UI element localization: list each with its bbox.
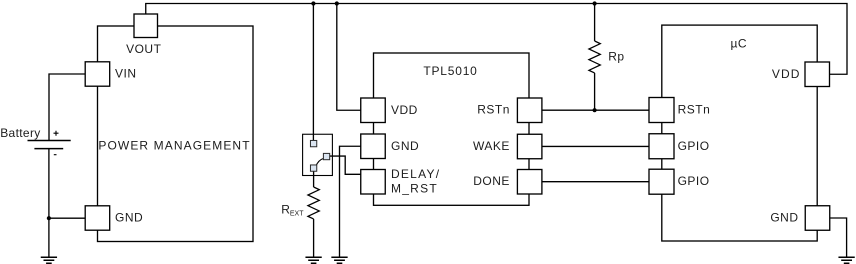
ground (TPL5010 GND) (331, 257, 347, 263)
wire TPL5010 DONE to uC GPIO (542, 181, 649, 183)
wire uC GND to ground (830, 218, 847, 257)
svg-text:POWER MANAGEMENT: POWER MANAGEMENT (98, 138, 250, 152)
battery plus mark (54, 131, 59, 136)
pin VOUT box (134, 14, 158, 38)
switch S1 body (303, 134, 333, 175)
resistor REXT (308, 187, 319, 219)
pin VDD box (uC) (805, 62, 830, 87)
wire REXT to ground (313, 219, 315, 257)
pin RSTn box (uC) (649, 98, 674, 123)
svg-text:VDD: VDD (772, 67, 801, 81)
wire TPL5010 WAKE to uC GPIO (542, 145, 649, 147)
wire rail to TPL5010 VDD (337, 4, 361, 111)
junction node rail-VDD (335, 1, 339, 5)
svg-text:GPIO: GPIO (678, 139, 710, 153)
switch terminal bottom-left (310, 165, 316, 171)
block uC (662, 25, 817, 241)
wire switch wiper to DELAY/M_RST (330, 156, 361, 174)
wire junction to ground (48, 218, 50, 257)
switch S1 wiper (316, 158, 324, 167)
pin GND box (TPL5010) (361, 134, 386, 159)
pin VIN box (85, 62, 110, 86)
svg-text:µC: µC (731, 37, 748, 51)
pin GPIO box 1 (uC) (649, 134, 674, 159)
junction node battery-GND (47, 216, 51, 220)
ground (uC GND) (838, 257, 854, 263)
ground (REXT) (305, 257, 321, 263)
pin DELAY/M_RST box (TPL5010) (361, 170, 386, 195)
svg-text:GND: GND (115, 211, 143, 225)
wire switch to REXT (313, 171, 315, 187)
pin GND box (PM) (85, 206, 110, 230)
battery minus mark (54, 154, 57, 156)
battery B1 (28, 141, 71, 149)
resistor Rp (589, 41, 600, 73)
wire TPL5010 GND to ground (340, 146, 361, 257)
wire Rp to RSTn net (594, 73, 596, 110)
ground (battery) (41, 257, 57, 263)
svg-text:M_RST: M_RST (391, 182, 438, 196)
wire VIN to battery (49, 74, 85, 140)
block POWER MANAGEMENT (98, 26, 254, 242)
svg-text:DELAY/: DELAY/ (391, 167, 440, 181)
pin WAKE box (TPL5010) (517, 134, 542, 159)
wire rail to switch top terminal (312, 4, 314, 141)
block TPL5010 (374, 53, 530, 205)
svg-text:TPL5010: TPL5010 (423, 64, 477, 78)
junction node rail-Rp (593, 1, 597, 5)
pin DONE box (TPL5010) (517, 170, 542, 195)
switch terminal right (323, 153, 329, 159)
svg-text:WAKE: WAKE (473, 139, 510, 153)
svg-text:VOUT: VOUT (126, 42, 162, 56)
pin GPIO box 2 (uC) (649, 169, 674, 194)
svg-text:GPIO: GPIO (678, 174, 710, 188)
svg-text:RSTn: RSTn (678, 103, 711, 117)
svg-text:Battery: Battery (0, 126, 40, 140)
svg-text:DONE: DONE (473, 174, 510, 188)
svg-text:VIN: VIN (115, 67, 137, 81)
pin RSTn box (TPL5010) (517, 98, 542, 123)
svg-text:GND: GND (391, 139, 419, 153)
junction node rail-switch (311, 1, 315, 5)
svg-text:Rp: Rp (608, 49, 624, 63)
pin VDD box (TPL5010) (361, 98, 386, 123)
wire VCC rail from VOUT to uC VDD (146, 4, 847, 75)
wire TPL5010 RSTn to uC RSTn (542, 109, 649, 111)
wire PM GND to junction (49, 217, 85, 219)
pin GND box (uC) (805, 206, 830, 231)
svg-text:VDD: VDD (391, 103, 418, 117)
wire battery negative down to ground junction (48, 149, 50, 219)
switch terminal top (310, 140, 316, 146)
svg-text:RSTn: RSTn (477, 103, 510, 117)
svg-text:GND: GND (770, 211, 798, 225)
svg-text:REXT: REXT (281, 203, 304, 218)
junction node Rp-RSTn (593, 108, 597, 112)
wire rail to Rp (594, 4, 596, 42)
